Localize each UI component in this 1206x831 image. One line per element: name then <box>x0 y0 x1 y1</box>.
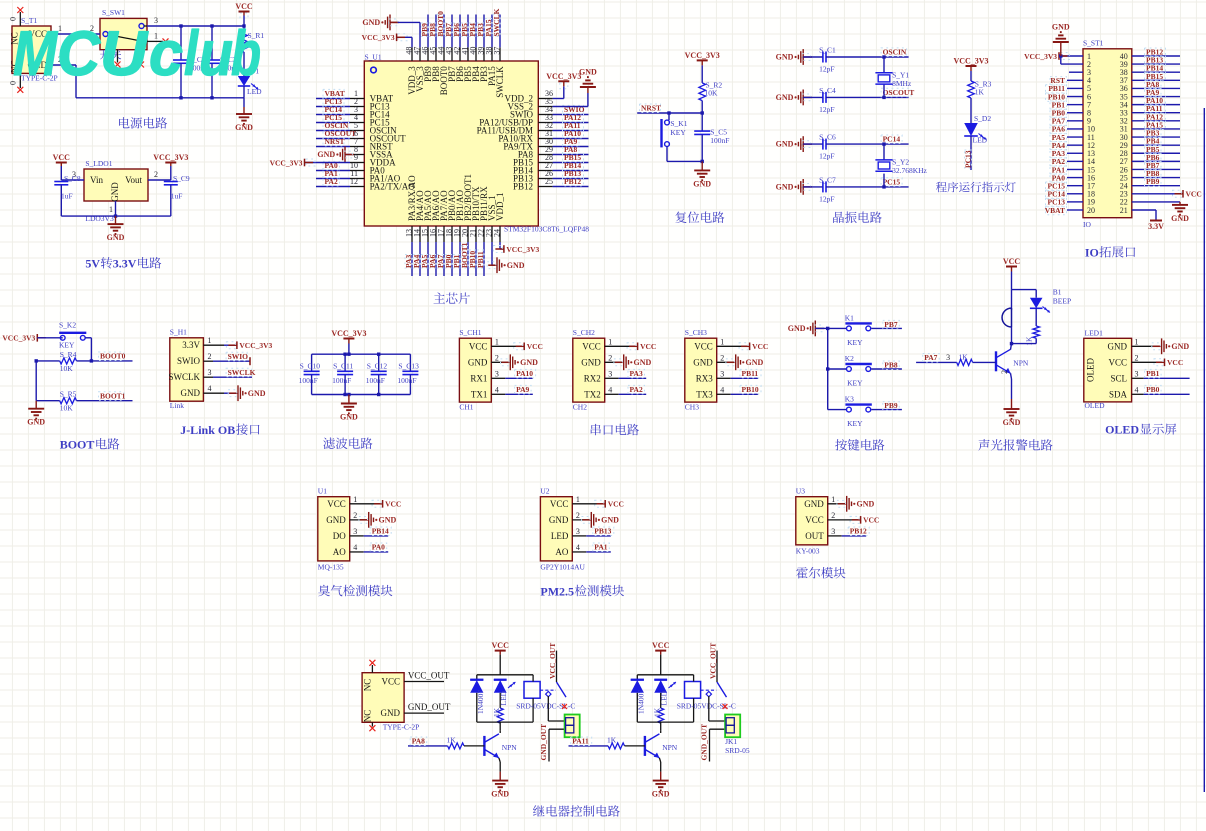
svg-text:NPN: NPN <box>1013 359 1029 368</box>
svg-text:1K: 1K <box>975 88 985 97</box>
svg-text:Vout: Vout <box>125 175 142 185</box>
svg-text:VCC: VCC <box>752 342 768 351</box>
svg-text:MQ-135: MQ-135 <box>318 562 344 571</box>
svg-text:GND: GND <box>379 515 397 524</box>
svg-text:l: l <box>184 19 199 89</box>
svg-text:2: 2 <box>1135 353 1139 362</box>
svg-text:2: 2 <box>576 511 580 520</box>
svg-text:GND: GND <box>776 53 794 62</box>
svg-text:VCC_3V3: VCC_3V3 <box>331 329 366 338</box>
svg-text:STM32F103C8T6_LQFP48: STM32F103C8T6_LQFP48 <box>504 225 589 234</box>
svg-text:U1: U1 <box>318 487 327 496</box>
svg-text:24: 24 <box>492 229 501 237</box>
svg-text:VCC: VCC <box>1167 358 1183 367</box>
svg-text:M: M <box>13 19 58 89</box>
svg-text:2: 2 <box>831 511 835 520</box>
svg-text:SDA: SDA <box>1109 389 1128 399</box>
svg-text:K3: K3 <box>845 395 854 404</box>
svg-text:KY-003: KY-003 <box>796 546 820 555</box>
svg-text:1: 1 <box>109 205 113 214</box>
svg-text:4: 4 <box>495 385 499 394</box>
svg-text:VCC: VCC <box>327 499 346 509</box>
svg-text:SRD-05: SRD-05 <box>725 746 750 755</box>
svg-text:U3: U3 <box>796 487 805 496</box>
svg-text:S_CH1: S_CH1 <box>459 328 481 337</box>
svg-text:GND: GND <box>1003 418 1021 427</box>
svg-text:GND: GND <box>326 515 346 525</box>
svg-text:VCC_3V3: VCC_3V3 <box>153 153 188 162</box>
svg-text:PB9: PB9 <box>1146 177 1160 186</box>
svg-text:S_C13: S_C13 <box>398 361 419 370</box>
svg-text:PB9: PB9 <box>884 401 898 410</box>
svg-text:GND: GND <box>1108 341 1128 351</box>
svg-text:PB1: PB1 <box>1146 369 1160 378</box>
svg-text:1uF: 1uF <box>61 192 73 201</box>
svg-text:21: 21 <box>1120 206 1128 215</box>
svg-text:PA0: PA0 <box>372 543 385 552</box>
svg-text:GND: GND <box>362 18 380 27</box>
svg-text:VCC_OUT: VCC_OUT <box>548 643 557 679</box>
svg-text:BEEP: BEEP <box>1053 297 1071 306</box>
svg-text:PA1: PA1 <box>594 543 607 552</box>
svg-text:1: 1 <box>608 337 612 346</box>
svg-text:GND: GND <box>468 357 488 367</box>
svg-text:NPN: NPN <box>662 743 678 752</box>
svg-text:GND: GND <box>601 515 619 524</box>
svg-text:U2: U2 <box>540 487 549 496</box>
svg-text:GP2Y1014AU: GP2Y1014AU <box>540 562 585 571</box>
svg-text:C: C <box>57 19 101 89</box>
svg-text:OUT: OUT <box>805 531 824 541</box>
svg-text:S_U1: S_U1 <box>365 52 382 61</box>
svg-text:BOOT0: BOOT0 <box>100 352 126 361</box>
svg-text:2: 2 <box>495 353 499 362</box>
svg-text:LDO3V3: LDO3V3 <box>85 214 114 223</box>
svg-text:VCC: VCC <box>550 499 569 509</box>
svg-text:VCC_3V3: VCC_3V3 <box>685 51 720 60</box>
svg-text:OLED: OLED <box>1105 423 1139 437</box>
svg-text:PB14: PB14 <box>372 527 389 536</box>
svg-text:IO: IO <box>1083 220 1091 229</box>
svg-text:4: 4 <box>208 384 212 393</box>
svg-text:PB12: PB12 <box>564 177 581 186</box>
svg-text:VCC_3V3: VCC_3V3 <box>506 245 539 254</box>
svg-text:KEY: KEY <box>847 419 863 428</box>
svg-text:PM2.5: PM2.5 <box>540 584 574 598</box>
svg-text:GND: GND <box>520 358 538 367</box>
svg-text:RX3: RX3 <box>696 373 714 383</box>
svg-text:GND: GND <box>776 140 794 149</box>
svg-text:1: 1 <box>1135 337 1139 346</box>
svg-text:SWCLK: SWCLK <box>228 368 256 377</box>
svg-text:KEY: KEY <box>670 128 686 137</box>
svg-text:3: 3 <box>208 368 212 377</box>
svg-text:VCC: VCC <box>1108 357 1127 367</box>
svg-text:GND: GND <box>507 261 525 270</box>
svg-text:LED: LED <box>551 531 569 541</box>
svg-text:4: 4 <box>1135 385 1139 394</box>
svg-text:1: 1 <box>208 336 212 345</box>
svg-text:S_SW1: S_SW1 <box>102 8 125 17</box>
svg-text:5V: 5V <box>85 257 100 271</box>
svg-text:VCC_OUT: VCC_OUT <box>408 671 450 681</box>
svg-text:DO: DO <box>333 531 346 541</box>
svg-text:GND: GND <box>1171 214 1189 223</box>
svg-text:100nF: 100nF <box>397 376 416 385</box>
svg-text:SWIO: SWIO <box>228 352 249 361</box>
svg-text:AO: AO <box>555 547 568 557</box>
svg-text:12pF: 12pF <box>819 65 834 74</box>
svg-text:VCC: VCC <box>582 341 601 351</box>
svg-text:GND: GND <box>381 708 401 718</box>
svg-text:GND: GND <box>788 324 806 333</box>
svg-text:B1: B1 <box>1053 288 1062 297</box>
svg-text:GND: GND <box>693 179 711 188</box>
svg-text:3: 3 <box>576 527 580 536</box>
svg-text:VCC: VCC <box>1003 257 1021 266</box>
svg-text:VCC_3V3: VCC_3V3 <box>362 33 395 42</box>
svg-text:GND: GND <box>107 233 125 242</box>
svg-text:VCC: VCC <box>805 515 824 525</box>
svg-text:20: 20 <box>1087 206 1095 215</box>
svg-text:b: b <box>231 19 261 89</box>
svg-text:10K: 10K <box>60 404 73 413</box>
svg-text:32.768KHz: 32.768KHz <box>892 166 927 175</box>
svg-text:K1: K1 <box>845 313 854 322</box>
svg-text:S_R4: S_R4 <box>60 350 77 359</box>
svg-text:RX2: RX2 <box>584 373 601 383</box>
svg-text:S_C8: S_C8 <box>64 174 81 183</box>
svg-text:GND: GND <box>1052 23 1070 32</box>
svg-text:S_CH3: S_CH3 <box>685 328 707 337</box>
svg-text:TYPE-C-2P: TYPE-C-2P <box>383 723 420 732</box>
svg-text:PA7: PA7 <box>924 353 937 362</box>
svg-text:GND: GND <box>235 123 253 132</box>
svg-text:12pF: 12pF <box>819 105 834 114</box>
svg-text:VCC: VCC <box>1186 190 1202 199</box>
svg-text:RX1: RX1 <box>470 373 487 383</box>
svg-text:KEY: KEY <box>847 338 863 347</box>
svg-text:PB12: PB12 <box>513 182 533 192</box>
svg-text:PC13: PC13 <box>964 150 973 168</box>
svg-text:IO: IO <box>1085 246 1099 260</box>
svg-text:1K: 1K <box>1025 336 1034 346</box>
svg-text:1N4007: 1N4007 <box>476 690 485 714</box>
svg-text:2: 2 <box>1000 370 1009 374</box>
svg-text:GND: GND <box>857 499 875 508</box>
svg-text:PB0: PB0 <box>1146 385 1160 394</box>
svg-text:S_D2: S_D2 <box>974 114 991 123</box>
svg-text:VCC: VCC <box>694 341 713 351</box>
svg-text:1: 1 <box>353 495 357 504</box>
svg-text:GND: GND <box>693 357 713 367</box>
svg-text:PA2: PA2 <box>630 385 643 394</box>
svg-text:3: 3 <box>353 527 357 536</box>
svg-text:GND_OUT: GND_OUT <box>700 724 709 761</box>
svg-text:S_ST1: S_ST1 <box>1083 39 1104 48</box>
svg-text:PA11: PA11 <box>572 737 589 746</box>
svg-text:8MHz: 8MHz <box>892 79 912 88</box>
svg-text:JK1: JK1 <box>725 737 737 746</box>
svg-text:GND: GND <box>181 388 201 398</box>
svg-text:12pF: 12pF <box>819 194 834 203</box>
svg-text:10K: 10K <box>60 364 73 373</box>
svg-text:12: 12 <box>350 177 358 186</box>
svg-text:GND_OUT: GND_OUT <box>539 724 548 761</box>
svg-text:OSCIN: OSCIN <box>883 47 907 56</box>
svg-text:S_C10: S_C10 <box>300 361 321 370</box>
svg-text:GND: GND <box>634 358 652 367</box>
svg-text:VCC_3V3: VCC_3V3 <box>2 334 35 343</box>
svg-text:GND: GND <box>579 68 597 77</box>
svg-text:S_C11: S_C11 <box>333 361 353 370</box>
svg-text:VCC: VCC <box>469 341 488 351</box>
svg-text:PC14: PC14 <box>883 135 901 144</box>
svg-text:TX1: TX1 <box>471 389 488 399</box>
svg-text:VCC_3V3: VCC_3V3 <box>1024 52 1057 61</box>
svg-text:SWCLK: SWCLK <box>492 8 501 36</box>
svg-text:GND: GND <box>746 358 764 367</box>
svg-text:PA9: PA9 <box>516 385 529 394</box>
svg-text:OSCOUT: OSCOUT <box>883 88 915 97</box>
svg-text:2: 2 <box>208 352 212 361</box>
svg-text:VCC: VCC <box>527 342 543 351</box>
svg-text:3: 3 <box>608 369 612 378</box>
svg-text:S_K2: S_K2 <box>59 321 76 330</box>
svg-text:PB13: PB13 <box>594 527 611 536</box>
svg-text:CH1: CH1 <box>459 403 473 412</box>
svg-text:S_K1: S_K1 <box>670 119 687 128</box>
svg-text:J-Link OB: J-Link OB <box>180 423 235 437</box>
svg-text:GND: GND <box>804 499 824 509</box>
svg-text:PB12: PB12 <box>850 527 867 536</box>
svg-text:BOOT1: BOOT1 <box>100 391 126 400</box>
svg-text:VCC: VCC <box>381 677 400 687</box>
svg-text:1: 1 <box>495 337 499 346</box>
svg-text:3.3V: 3.3V <box>113 257 137 271</box>
svg-text:KEY: KEY <box>59 340 75 349</box>
svg-text:4: 4 <box>353 543 357 552</box>
svg-text:GND: GND <box>340 413 358 422</box>
svg-text:SCL: SCL <box>1110 373 1127 383</box>
svg-text:VCC: VCC <box>53 153 71 162</box>
svg-text:1: 1 <box>831 495 835 504</box>
svg-text:S_LDO1: S_LDO1 <box>85 159 112 168</box>
svg-text:Link: Link <box>170 401 184 410</box>
svg-text:S_C4: S_C4 <box>819 86 836 95</box>
svg-text:VCC_3V3: VCC_3V3 <box>546 72 581 81</box>
svg-text:SWCLK: SWCLK <box>169 372 201 382</box>
svg-text:NRST: NRST <box>641 104 661 113</box>
svg-text:Vin: Vin <box>90 175 103 185</box>
svg-text:100nF: 100nF <box>299 376 318 385</box>
svg-text:3.3V: 3.3V <box>182 340 200 350</box>
svg-text:S_R5: S_R5 <box>60 390 77 399</box>
svg-text:NC: NC <box>363 679 373 692</box>
svg-text:4: 4 <box>720 385 724 394</box>
svg-text:OLED: OLED <box>1085 401 1106 410</box>
svg-text:CH3: CH3 <box>685 403 699 412</box>
svg-text:K2: K2 <box>845 354 854 363</box>
svg-text:12pF: 12pF <box>819 152 834 161</box>
svg-text:S_C1: S_C1 <box>819 46 836 55</box>
svg-text:PA10: PA10 <box>516 369 533 378</box>
svg-text:PA2: PA2 <box>325 177 338 186</box>
svg-text:4: 4 <box>608 385 612 394</box>
svg-text:GND: GND <box>776 183 794 192</box>
svg-text:PB7: PB7 <box>884 320 898 329</box>
svg-text:GND: GND <box>491 790 509 799</box>
svg-text:100nF: 100nF <box>710 136 729 145</box>
svg-text:100nF: 100nF <box>332 376 351 385</box>
svg-text:VCC: VCC <box>385 500 401 509</box>
svg-text:VCC: VCC <box>608 500 624 509</box>
svg-text:PB10: PB10 <box>742 385 759 394</box>
svg-text:1K: 1K <box>492 707 501 717</box>
svg-text:PA8: PA8 <box>412 737 425 746</box>
svg-text:3: 3 <box>831 527 835 536</box>
svg-text:S_C6: S_C6 <box>819 133 836 142</box>
svg-text:PA3: PA3 <box>630 369 643 378</box>
svg-text:1K: 1K <box>653 707 662 717</box>
svg-text:2: 2 <box>608 353 612 362</box>
svg-text:VDD_1: VDD_1 <box>495 193 505 222</box>
svg-text:OLED: OLED <box>1086 358 1096 382</box>
svg-text:S_CH2: S_CH2 <box>573 328 595 337</box>
svg-text:3: 3 <box>720 369 724 378</box>
svg-text:1: 1 <box>576 495 580 504</box>
svg-text:SWIO: SWIO <box>177 356 200 366</box>
svg-text:PB11: PB11 <box>476 251 485 268</box>
svg-text:PC15: PC15 <box>883 177 901 186</box>
svg-text:S_H1: S_H1 <box>170 328 187 337</box>
svg-text:SWCLK: SWCLK <box>495 66 505 98</box>
svg-text:1N4007: 1N4007 <box>637 690 646 714</box>
svg-text:VCC: VCC <box>640 342 656 351</box>
svg-text:GND: GND <box>248 389 266 398</box>
svg-text:4: 4 <box>576 543 580 552</box>
svg-text:NC: NC <box>363 710 373 723</box>
svg-text:GND: GND <box>1171 342 1189 351</box>
svg-text:3: 3 <box>946 353 950 362</box>
svg-text:S_C12: S_C12 <box>367 361 388 370</box>
svg-text:c: c <box>149 19 183 89</box>
svg-text:u: u <box>199 19 233 89</box>
svg-text:25: 25 <box>545 177 553 186</box>
svg-text:KEY: KEY <box>847 379 863 388</box>
svg-text:VBAT: VBAT <box>1045 206 1065 215</box>
svg-text:GND: GND <box>776 93 794 102</box>
svg-text:NPN: NPN <box>502 743 518 752</box>
svg-text:1uF: 1uF <box>171 192 183 201</box>
svg-text:S_C7: S_C7 <box>819 175 836 184</box>
svg-text:GND_OUT: GND_OUT <box>408 702 451 712</box>
svg-text:CH2: CH2 <box>573 403 587 412</box>
svg-text:TX3: TX3 <box>696 389 713 399</box>
svg-text:2: 2 <box>353 511 357 520</box>
svg-text:VCC_OUT: VCC_OUT <box>709 643 718 679</box>
svg-text:3.3V: 3.3V <box>1148 222 1164 231</box>
svg-text:VCC_3V3: VCC_3V3 <box>953 57 988 66</box>
svg-text:VCC: VCC <box>492 641 510 650</box>
svg-text:U: U <box>100 19 149 89</box>
svg-text:3: 3 <box>495 369 499 378</box>
svg-text:1: 1 <box>720 337 724 346</box>
svg-text:LED: LED <box>973 136 988 145</box>
svg-text:3: 3 <box>1135 369 1139 378</box>
svg-text:VCC: VCC <box>652 641 670 650</box>
svg-text:PB8: PB8 <box>884 361 898 370</box>
svg-text:100nF: 100nF <box>366 376 385 385</box>
svg-text:GND: GND <box>317 150 335 159</box>
svg-text:TX2: TX2 <box>584 389 601 399</box>
svg-text:S_C9: S_C9 <box>173 174 190 183</box>
svg-text:GND: GND <box>581 357 601 367</box>
svg-text:VCC_3V3: VCC_3V3 <box>270 158 303 167</box>
svg-text:GND: GND <box>652 790 670 799</box>
svg-text:NRST: NRST <box>325 137 345 146</box>
svg-text:BOOT: BOOT <box>60 438 95 452</box>
svg-text:2: 2 <box>154 170 158 179</box>
svg-text:LED1: LED1 <box>1085 329 1104 338</box>
svg-text:GND: GND <box>27 418 45 427</box>
svg-text:VCC: VCC <box>863 516 879 525</box>
svg-text:PB11: PB11 <box>742 369 759 378</box>
svg-text:AO: AO <box>333 547 346 557</box>
svg-text:GND: GND <box>549 515 569 525</box>
svg-text:GND: GND <box>110 182 120 202</box>
svg-text:2: 2 <box>720 353 724 362</box>
svg-text:37: 37 <box>492 47 501 55</box>
svg-text:VCC_3V3: VCC_3V3 <box>239 341 272 350</box>
svg-text:10K: 10K <box>705 89 719 98</box>
svg-text:VCC: VCC <box>235 2 253 11</box>
